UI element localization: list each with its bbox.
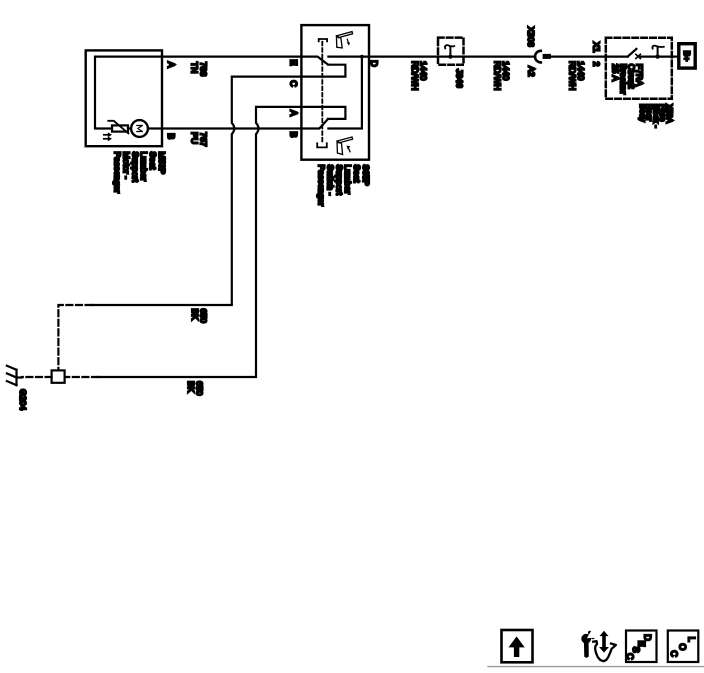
switch lower blade from pin B	[301, 119, 327, 128]
wire breaker to bus	[641, 55, 672, 57]
svg-text:C: C	[625, 653, 635, 660]
circuit breaker F7RA blade	[628, 49, 637, 57]
svg-text:X1: X1	[592, 42, 602, 53]
mechanical link dashed	[321, 42, 323, 143]
svg-text:E: E	[288, 59, 298, 65]
wire to battery	[672, 55, 678, 57]
svg-text:B: B	[166, 133, 176, 139]
icon up-arrow box	[502, 630, 533, 662]
thermal protector	[112, 125, 128, 131]
wire dashed to ground corner	[58, 305, 91, 370]
mechanical link top bracket	[319, 39, 327, 41]
svg-text:S: S	[631, 647, 641, 653]
motor M53P component box	[86, 50, 162, 146]
svg-text:O: O	[678, 643, 688, 650]
switch feed stub D	[328, 55, 369, 57]
wire 650 BK from pin A	[98, 107, 301, 377]
svg-text:C: C	[288, 80, 298, 87]
wire dashed to ground splice	[65, 376, 98, 378]
svg-text:A: A	[166, 62, 176, 68]
splice J346 dashed box	[438, 38, 464, 65]
svg-text:2: 2	[592, 62, 602, 67]
svg-text:X308: X308	[526, 27, 536, 47]
switch S65P component box	[301, 25, 369, 160]
connector X308 female half	[535, 51, 541, 63]
svg-text:D: D	[369, 60, 379, 67]
switch lower contact bracket to pin A	[301, 107, 345, 119]
switch upper blade from pin E	[301, 57, 327, 65]
svg-text:A2: A2	[527, 66, 537, 77]
thermal arrows	[104, 135, 108, 139]
mechanical link bottom bracket	[317, 143, 327, 147]
bus bar symbol	[657, 47, 659, 56]
splice J346 symbol	[449, 47, 451, 57]
connector X308 male terminal	[543, 54, 551, 59]
svg-text:C: C	[669, 650, 679, 657]
icon up-down arrow	[599, 631, 609, 653]
svg-text:B: B	[288, 131, 298, 137]
wire 788 TN	[162, 55, 301, 57]
svg-text:B+: B+	[682, 51, 692, 62]
svg-text:L: L	[687, 637, 697, 642]
fuse block X53A dashed box	[606, 38, 672, 99]
icon connector hook outline	[593, 641, 616, 661]
icon DESC box	[626, 631, 657, 663]
thermal protector strike-through	[108, 121, 128, 134]
motor M letter	[137, 126, 142, 132]
wire 650 BK from pin C	[92, 77, 302, 305]
icon wrench	[581, 630, 597, 658]
motor M circle	[131, 120, 148, 137]
actuator icon upper	[336, 32, 352, 48]
circuit breaker contact x	[636, 54, 641, 58]
wire D vertical feed	[328, 57, 362, 129]
battery B+ box	[679, 44, 695, 68]
node D junction	[360, 55, 364, 59]
wire 1440 RD/WH switch to X308	[369, 55, 535, 57]
divider line	[488, 666, 704, 668]
svg-text:G204: G204	[18, 389, 28, 410]
wire internal motor path	[95, 57, 162, 129]
wire 1440 RD/WH X308 to fuse block	[551, 55, 628, 57]
svg-text:A: A	[288, 110, 298, 116]
wire 767 PU	[162, 127, 301, 129]
actuator icon lower	[337, 137, 353, 155]
ground splice square	[52, 370, 65, 382]
ground G204 symbol	[7, 366, 22, 386]
svg-text:J346: J346	[455, 69, 465, 88]
switch upper contact bracket to pin C	[301, 65, 345, 77]
wire dashed splice to ground	[22, 376, 52, 378]
icon LOC box	[668, 631, 699, 663]
wire thermal to motor to pin B	[128, 127, 162, 129]
